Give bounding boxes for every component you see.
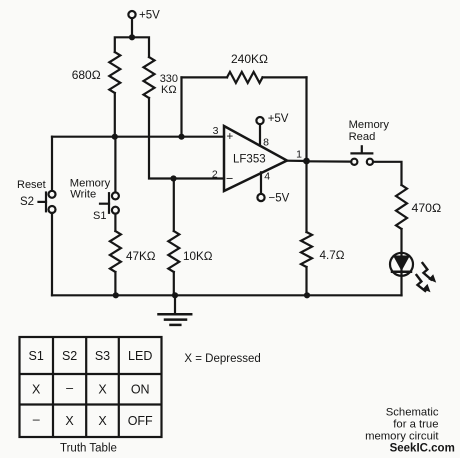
svg-text:S2: S2 [62, 349, 77, 363]
+5V supply terminal [128, 10, 160, 22]
svg-text:X = Depressed: X = Depressed [184, 353, 260, 365]
svg-text:Schematic: Schematic [386, 407, 439, 419]
wire: 330K to inverting input [149, 98, 224, 179]
op-amp +5V pin 8 terminal [256, 113, 288, 146]
svg-text:−: − [226, 171, 233, 185]
svg-text:Reset: Reset [17, 179, 46, 191]
svg-text:KΩ: KΩ [161, 84, 177, 96]
svg-text:1: 1 [296, 149, 302, 161]
node [112, 134, 118, 140]
svg-text:S1: S1 [93, 210, 106, 222]
svg-text:LED: LED [128, 349, 152, 363]
wire [373, 162, 401, 185]
svg-text:10KΩ: 10KΩ [183, 250, 213, 263]
wire: feedback right leg [305, 77, 307, 161]
wire [51, 213, 53, 295]
svg-text:SeekIC.com: SeekIC.com [390, 442, 455, 454]
svg-text:4.7Ω: 4.7Ω [320, 249, 345, 262]
wire [173, 272, 175, 295]
resistor 330K [144, 57, 179, 98]
svg-text:S3: S3 [95, 349, 110, 363]
wire: non-inverting input net [52, 136, 224, 138]
svg-text:LF353: LF353 [233, 154, 266, 166]
pushbutton S2 [17, 179, 56, 213]
node [304, 292, 310, 298]
wire [307, 160, 352, 163]
resistor 240K feedback [182, 52, 307, 137]
svg-text:X: X [98, 383, 107, 397]
resistor 10K [168, 231, 212, 272]
svg-text:ON: ON [131, 383, 150, 397]
svg-text:Memory: Memory [349, 119, 390, 131]
svg-text:+: + [227, 131, 234, 143]
svg-text:Write: Write [70, 189, 96, 201]
wire: riser to S1 [114, 137, 116, 193]
svg-text:memory circuit: memory circuit [365, 430, 439, 442]
wire [115, 37, 149, 57]
caption: schematic title [365, 407, 455, 455]
ground [159, 295, 192, 325]
svg-text:X: X [65, 414, 74, 428]
resistor 47K [110, 231, 156, 272]
svg-text:47KΩ: 47KΩ [126, 250, 156, 263]
wire [114, 272, 116, 295]
svg-text:470Ω: 470Ω [412, 201, 442, 215]
wire: left riser to S2 [51, 137, 53, 191]
svg-text:−5V: −5V [269, 193, 290, 205]
LED light arrow 2 [417, 275, 431, 292]
wire [131, 18, 133, 37]
svg-text:4: 4 [264, 171, 270, 183]
wire: ground bus [52, 294, 402, 296]
svg-text:for a true: for a true [393, 418, 438, 430]
op-amp -5V pin 4 terminal [257, 172, 289, 204]
svg-text:OFF: OFF [128, 414, 153, 428]
node [113, 292, 119, 298]
wire: op-amp output [287, 160, 307, 163]
wire [400, 229, 402, 253]
wire [173, 179, 175, 232]
svg-text:–: – [66, 381, 73, 395]
node [178, 134, 184, 140]
node: inverting net junction [170, 175, 176, 181]
truth table [20, 337, 162, 437]
svg-text:240KΩ: 240KΩ [231, 52, 268, 66]
svg-text:680Ω: 680Ω [72, 68, 101, 82]
resistor 680 ohm [72, 52, 121, 93]
svg-text:+5V: +5V [139, 10, 160, 22]
LED light arrow 1 [423, 263, 437, 283]
node: supply junction [129, 34, 135, 40]
svg-text:–: – [33, 413, 40, 427]
svg-text:X: X [32, 383, 41, 397]
node [172, 292, 178, 298]
wire [114, 93, 116, 137]
svg-text:2: 2 [212, 169, 218, 181]
svg-text:S2: S2 [20, 196, 34, 208]
wire [114, 214, 116, 231]
op-amp U1 LF353 [212, 125, 302, 191]
svg-text:X: X [98, 414, 107, 428]
pushbutton S3 Memory Read [349, 119, 390, 165]
node: output junction pin 1 [303, 158, 310, 165]
svg-text:3: 3 [213, 125, 219, 137]
resistor 4.7 ohm [301, 161, 345, 295]
svg-text:Truth Table: Truth Table [60, 443, 117, 455]
pushbutton S1 [70, 178, 119, 222]
resistor 470 ohm [396, 185, 441, 229]
svg-text:8: 8 [263, 137, 269, 149]
svg-text:S1: S1 [29, 349, 44, 363]
LED D1 [390, 253, 413, 296]
svg-text:Read: Read [349, 131, 376, 143]
svg-text:+5V: +5V [268, 113, 289, 125]
